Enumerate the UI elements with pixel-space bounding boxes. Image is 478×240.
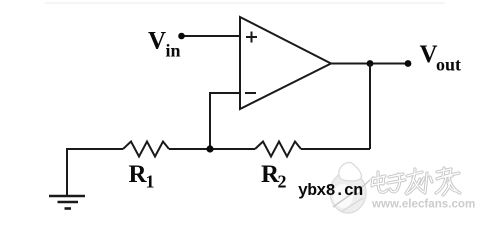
char shao [421,168,457,193]
svg-text:out: out [436,55,461,75]
svg-text:2: 2 [278,172,287,192]
char zi [388,174,405,192]
wire output junction down to bottom rail [369,64,371,150]
op-amp minus input marker [245,92,256,94]
wire Vin to plus input [181,35,240,37]
wire bottom rail left segment [67,148,123,150]
op-amp plus input marker [246,32,257,43]
watermark logo circle [330,162,370,213]
char fa [406,169,424,194]
wire output [331,63,408,65]
wire bottom rail right segment [301,148,370,150]
resistor R1 [123,142,169,157]
svg-text:ybx8.cn: ybx8.cn [298,181,362,200]
svg-text:in: in [166,41,181,61]
watermark chinese characters (elecfans) [372,168,460,195]
ground [49,195,85,198]
op-amp U1 triangle [240,17,331,109]
node Vin terminal dot [178,33,185,40]
char you [443,169,460,195]
wire bottom rail middle segment [169,148,255,150]
wire feedback from minus input down to node A [210,93,240,149]
node A junction dot [206,145,213,152]
wire ground stem [66,148,68,196]
svg-text:V: V [420,41,438,68]
node output junction dot [367,60,374,67]
char dian [372,172,387,192]
resistor R2 [255,142,301,157]
svg-text:www.elecfans.com: www.elecfans.com [371,198,475,211]
node Vout terminal dot [405,60,412,67]
svg-text:V: V [148,28,166,55]
svg-text:1: 1 [146,172,155,192]
